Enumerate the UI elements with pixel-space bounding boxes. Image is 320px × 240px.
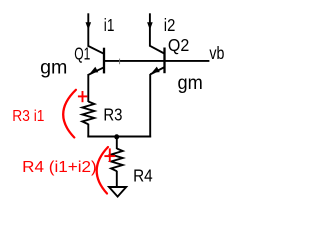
svg-text:i2: i2: [164, 15, 176, 35]
wire: node down to R4: [116, 137, 118, 149]
resistor R3: [82, 102, 94, 125]
annotation arc (R4 voltage): [97, 147, 108, 194]
ground: [109, 187, 126, 197]
annotation plus (R3): [78, 91, 87, 102]
wire: R3 bottom to node: [87, 124, 89, 138]
wire: Q2 emitter down to node: [149, 74, 151, 137]
svg-text:R3: R3: [103, 105, 122, 125]
svg-text:R4: R4: [133, 166, 153, 186]
wire: Q1 collector from i1 source: [87, 13, 89, 47]
svg-text:Q2: Q2: [168, 35, 189, 55]
svg-text:R3 i1: R3 i1: [12, 108, 44, 125]
annotation arc (R3 voltage): [63, 90, 76, 138]
svg-text:vb: vb: [209, 43, 224, 63]
junction dot (node): [114, 134, 119, 139]
svg-text:Q1: Q1: [74, 43, 90, 63]
svg-text:R4 (i1+i2): R4 (i1+i2): [22, 159, 97, 176]
transistor Q2: [150, 46, 165, 75]
resistor R4: [111, 149, 123, 172]
svg-text:gm: gm: [40, 58, 67, 79]
svg-text:i1: i1: [104, 15, 115, 35]
transistor Q1: [88, 46, 104, 75]
wire: base rail to vb: [104, 60, 209, 62]
wire: Q1 emitter down to R3: [87, 74, 89, 102]
wire: bottom node rail: [87, 136, 151, 138]
wire: R4 bottom to ground: [116, 171, 118, 187]
junction tick on base rail: [119, 59, 121, 65]
wire: Q2 collector from i2 source: [149, 13, 151, 46]
current arrow i1: [86, 22, 92, 30]
svg-text:gm: gm: [178, 73, 203, 94]
current arrow i2: [147, 22, 153, 30]
annotation plus (R4): [104, 148, 115, 162]
